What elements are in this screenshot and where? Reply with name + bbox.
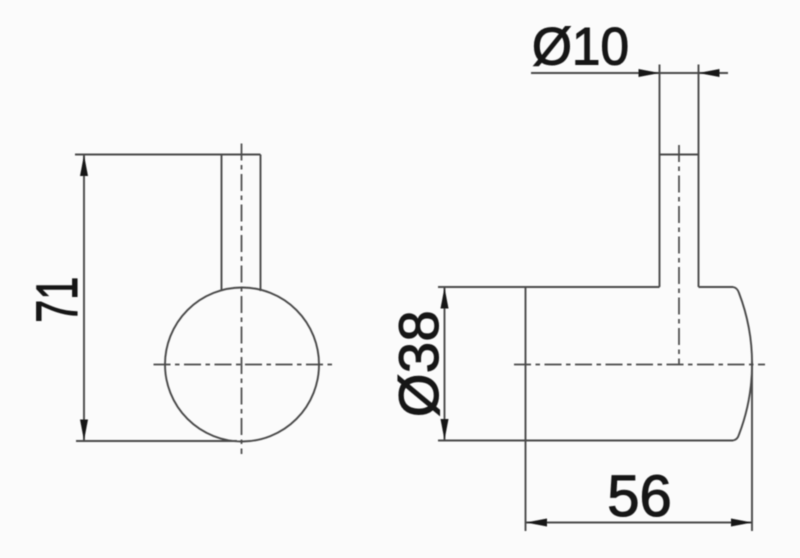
side view: body top edge right segment [699,286,734,288]
dim 71: top arrowhead [80,155,88,176]
dim Ø10: dimension/leader line [531,72,728,74]
dim 56: dimension line [526,522,753,524]
dim Ø10: right arrowhead [699,69,720,77]
side view: body left edge wire [525,287,527,441]
side view: horizontal centerline [514,364,765,366]
side view: stem left edge / extension wire [659,65,661,288]
dim Ø38: bottom arrowhead [441,419,449,440]
side view: body top edge left segment [526,286,660,288]
svg-text:56: 56 [607,464,672,529]
front view: stem right edge wire [260,155,262,292]
dim Ø38: dimension line [444,287,446,441]
side view: stem vertical centerline [678,145,680,365]
dim Ø38: top arrowhead [441,288,449,309]
dim Ø38: top extension line [438,286,526,288]
dim 71: bottom extension line [76,440,237,442]
side view: body bottom edge [526,440,734,442]
dim Ø38: bottom extension line [438,440,526,442]
dim 56: left extension line [525,441,527,532]
dim 56: right extension line [751,362,753,532]
side view: stem right edge / extension wire [698,65,700,288]
svg-text:Ø38: Ø38 [387,310,450,417]
side view: stem top edge [660,154,699,156]
dim 71: bottom arrowhead [80,420,88,441]
dim 56: left arrowhead [526,519,547,527]
dim 71: top extension line [75,154,261,156]
front view: vertical centerline [241,144,243,455]
svg-text:Ø10: Ø10 [532,18,629,77]
svg-text:71: 71 [25,277,90,323]
front view: stem left edge wire [221,155,223,292]
dim 71: dimension line [83,155,85,442]
front view: hook knob circle [165,288,319,442]
front view: horizontal centerline [154,364,335,366]
dim Ø10: left arrowhead [639,69,660,77]
side view: body right end arc [733,287,752,441]
dim 56: right arrowhead [731,519,752,527]
